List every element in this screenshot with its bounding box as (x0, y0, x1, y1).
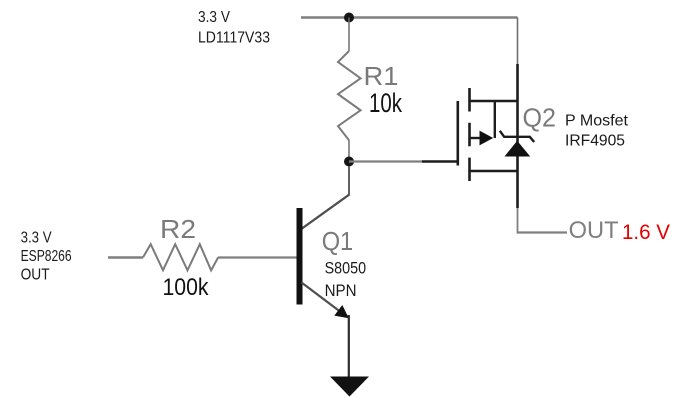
svg-text:IRF4905: IRF4905 (565, 133, 625, 150)
svg-text:S8050: S8050 (325, 259, 367, 278)
svg-text:10k: 10k (369, 88, 402, 118)
svg-text:100k: 100k (163, 274, 210, 301)
svg-text:Q2: Q2 (523, 103, 557, 133)
svg-text:3.3 V: 3.3 V (21, 230, 53, 247)
svg-text:R1: R1 (364, 61, 399, 91)
svg-text:3.3 V: 3.3 V (198, 9, 231, 26)
svg-text:Q1: Q1 (322, 226, 354, 256)
svg-text:R2: R2 (160, 214, 196, 244)
svg-text:NPN: NPN (325, 281, 357, 300)
svg-text:LD1117V33: LD1117V33 (198, 29, 270, 46)
svg-text:OUT: OUT (569, 217, 619, 244)
svg-text:1.6 V: 1.6 V (622, 220, 671, 244)
svg-text:P Mosfet: P Mosfet (565, 113, 629, 130)
svg-text:OUT: OUT (21, 267, 50, 284)
svg-text:ESP8266: ESP8266 (21, 248, 72, 265)
